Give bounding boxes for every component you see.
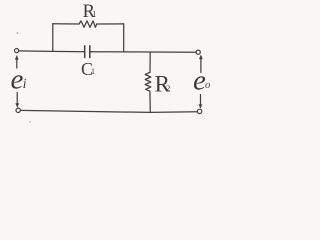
svg-text:1: 1 xyxy=(92,10,96,19)
svg-text:e: e xyxy=(11,64,24,96)
svg-text:i: i xyxy=(23,77,27,92)
svg-text:2: 2 xyxy=(166,83,170,93)
svg-text:o: o xyxy=(205,80,210,91)
svg-text:1: 1 xyxy=(91,67,95,76)
